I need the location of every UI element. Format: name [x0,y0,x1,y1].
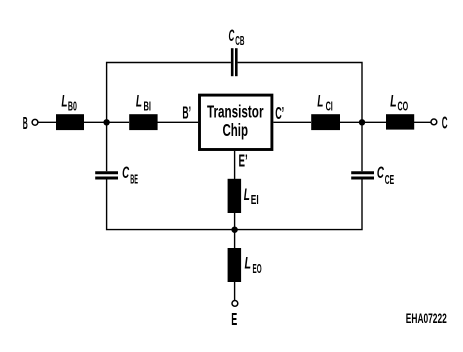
svg-text:C’: C’ [275,103,284,123]
inductor LEO [228,248,242,282]
capacitor CCB plates [232,48,236,76]
label LCI [317,91,333,113]
wire right vertical to CCE [361,122,363,171]
wire LEI to bottom rail node [234,213,236,248]
label LB0 [61,91,77,113]
wire left vertical to CBE [106,122,108,171]
label LCO [390,91,408,113]
inductor LBI [129,114,157,130]
wire CBE to bottom rail [107,179,235,229]
capacitor CCE plates [351,173,374,178]
inductor LCO [386,114,414,129]
wire chip to LCI (node C') [273,121,311,123]
wire chip E' to LEI [234,151,236,179]
wire LEO to E terminal [234,282,236,300]
label CBE [122,163,138,187]
svg-text:EHA07222: EHA07222 [406,311,447,326]
svg-text:CI: CI [326,99,333,113]
wire LB0 to LBI through node B-int [84,121,129,123]
svg-text:BE: BE [130,173,138,187]
transistor chip U1 box [200,95,272,149]
svg-text:CE: CE [385,173,394,187]
wire B terminal to LB0 [38,121,56,123]
svg-text:E: E [231,309,237,329]
svg-text:B: B [23,113,28,133]
wire LBI to chip (node B') [158,121,199,123]
svg-text:C: C [122,163,129,182]
svg-text:L: L [244,185,250,204]
label LEI [244,185,259,207]
wire CCE to bottom rail [235,179,362,229]
label LEO [245,254,262,277]
inductor LEI [228,179,242,213]
label LBI [136,91,151,113]
svg-text:C: C [229,26,235,45]
wire top rail left of CCB [107,63,231,123]
inductor LB0 [56,114,84,130]
svg-text:L: L [317,91,323,110]
wire LCO to C terminal [414,121,431,123]
node dot B-int [103,119,109,125]
svg-text:CB: CB [235,34,244,48]
label CCE [377,163,394,187]
svg-text:L: L [390,91,397,110]
terminal C circle [431,119,437,125]
svg-text:L: L [61,91,67,110]
svg-text:B0: B0 [68,99,77,113]
svg-text:C: C [442,113,448,133]
svg-text:L: L [136,91,142,110]
svg-text:CO: CO [398,99,409,113]
terminal B circle [32,119,38,125]
inductor LCI [311,114,340,130]
terminal E circle [232,301,238,307]
svg-text:B’: B’ [182,103,191,123]
transistor chip U1 text [207,101,264,140]
label CCB [229,26,245,48]
wire top rail right of CCB [238,63,362,123]
svg-text:EI: EI [251,193,259,207]
svg-text:Chip: Chip [223,120,249,140]
svg-text:E’: E’ [239,151,248,171]
node dot C-int [359,119,365,125]
svg-text:EO: EO [253,262,262,276]
svg-text:L: L [245,254,252,273]
node dot E-int [231,227,237,233]
capacitor CBE plates [95,173,118,178]
svg-text:BI: BI [144,99,152,113]
svg-text:C: C [377,163,384,182]
wire LCI to LCO through node C-int [340,121,386,123]
svg-text:Transistor: Transistor [207,101,264,121]
